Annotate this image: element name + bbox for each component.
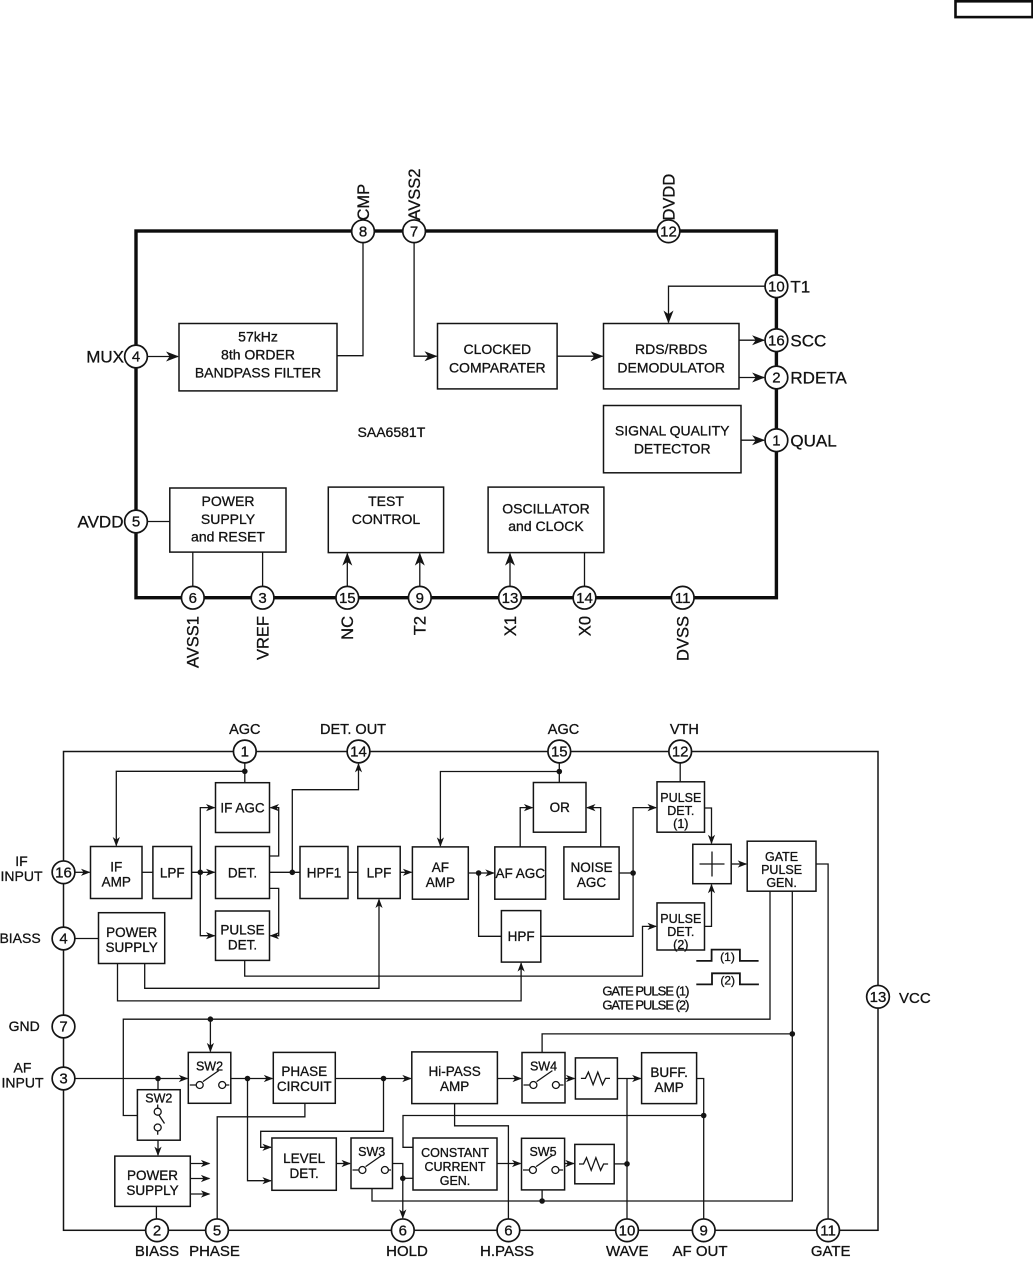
- svg-text:CONSTANT: CONSTANT: [421, 1146, 489, 1160]
- svg-text:RDS/RBDS: RDS/RBDS: [635, 341, 707, 357]
- block NOISE AGC: [564, 847, 619, 899]
- IC boundary SAA6581T: [136, 231, 776, 598]
- wire AGC branch to IF AMP top: [116, 771, 245, 845]
- pin 1 QUAL: [765, 429, 788, 452]
- pin 11 DVSS: [671, 586, 694, 609]
- svg-text:CMP: CMP: [355, 184, 373, 221]
- svg-text:16: 16: [55, 865, 72, 882]
- pin 12 VTH: [669, 740, 692, 763]
- junction AF input to shunt switch: [155, 1076, 161, 1082]
- wire CONSTANT CURRENT GEN. to SW5: [497, 1163, 521, 1165]
- svg-text:1: 1: [241, 744, 249, 761]
- svg-text:IF: IF: [15, 853, 27, 869]
- svg-text:GATE PULSE (2): GATE PULSE (2): [602, 998, 689, 1013]
- junction gate pulse (2) to SW5: [539, 1198, 545, 1204]
- svg-text:SUPPLY: SUPPLY: [126, 1183, 178, 1198]
- block RDS/RBDS demodulator: [604, 324, 740, 389]
- svg-text:and RESET: and RESET: [191, 529, 265, 545]
- svg-text:X0: X0: [576, 616, 594, 636]
- wire LPF to AF AMP: [400, 871, 411, 873]
- wire PULSE DET.(2) to adder: [705, 885, 712, 927]
- wire power supply to pin6 AVSS1: [192, 552, 194, 586]
- wire branch to HPF: [479, 873, 502, 936]
- resistor (wave shaping 2): [575, 1144, 614, 1183]
- block CONSTANT CURRENT GEN.: [413, 1138, 497, 1190]
- pin 4 BIASS: [52, 927, 75, 950]
- svg-text:AGC: AGC: [548, 722, 579, 738]
- svg-text:OR: OR: [550, 800, 571, 815]
- wire DET. lower feedback to PULSE DET. right: [270, 888, 279, 935]
- wire branch to SW5 bottom: [541, 1190, 543, 1201]
- svg-text:AMP: AMP: [426, 875, 455, 890]
- svg-text:CONTROL: CONTROL: [352, 511, 421, 527]
- svg-text:DEMODULATOR: DEMODULATOR: [617, 360, 725, 376]
- pin 15 AGC: [548, 740, 571, 763]
- svg-text:13: 13: [502, 590, 519, 607]
- svg-text:10: 10: [619, 1223, 636, 1240]
- svg-text:IF AGC: IF AGC: [220, 800, 265, 815]
- power supply output arrows: [190, 1164, 209, 1195]
- svg-text:2: 2: [772, 370, 780, 387]
- wire power supply to pin2 BIASS: [155, 1206, 157, 1219]
- svg-text:4: 4: [59, 931, 67, 948]
- wire pin5 AVDD to power supply: [147, 521, 169, 523]
- svg-text:BIASS: BIASS: [0, 930, 41, 946]
- wire branch to SW2 series top: [209, 1019, 211, 1051]
- junction DET. output: [290, 870, 296, 876]
- svg-text:AMP: AMP: [102, 875, 131, 890]
- waveform gate pulse (2): [696, 973, 759, 984]
- svg-text:12: 12: [672, 744, 689, 761]
- block PULSE DET. (2): [657, 903, 705, 950]
- svg-text:VTH: VTH: [670, 722, 699, 738]
- switch SW2 (series): [188, 1052, 231, 1103]
- block Hi-PASS AMP: [412, 1052, 498, 1104]
- wire RDS demodulator to pin2 RDETA: [739, 377, 764, 379]
- block LPF (AF): [358, 847, 400, 899]
- svg-text:11: 11: [675, 590, 691, 607]
- wire pin15 AGC to OR top: [558, 763, 560, 783]
- svg-text:OSCILLATOR: OSCILLATOR: [502, 500, 589, 516]
- svg-text:PULSE: PULSE: [660, 791, 701, 805]
- block IF AGC: [216, 783, 270, 833]
- svg-text:DET. OUT: DET. OUT: [320, 722, 386, 738]
- svg-text:GATE PULSE (1): GATE PULSE (1): [602, 984, 689, 999]
- svg-text:8: 8: [359, 224, 367, 241]
- wire DET. upper feedback to IF AGC right: [270, 808, 279, 856]
- svg-text:SUPPLY: SUPPLY: [201, 511, 256, 527]
- svg-text:WAVE: WAVE: [606, 1243, 649, 1260]
- block AF AMP: [412, 847, 468, 899]
- svg-text:HPF1: HPF1: [307, 865, 342, 880]
- svg-text:6: 6: [189, 590, 197, 607]
- switch SW3: [351, 1138, 393, 1189]
- junction HOLD bus: [400, 1176, 406, 1182]
- svg-text:SUPPLY: SUPPLY: [105, 940, 157, 955]
- svg-text:GATE: GATE: [811, 1243, 851, 1260]
- svg-text:T1: T1: [790, 277, 810, 296]
- wire Hi-PASS AMP bottom to pin6 H.PASS: [455, 1104, 509, 1219]
- pin 10 T1: [765, 275, 788, 298]
- svg-text:RDETA: RDETA: [790, 369, 847, 388]
- wire IF AMP to LPF: [142, 871, 153, 873]
- junction on AGC(15) line: [557, 769, 563, 775]
- svg-text:SAA6581T: SAA6581T: [358, 424, 426, 440]
- svg-text:T2: T2: [412, 616, 430, 635]
- block AF AGC: [495, 847, 546, 899]
- svg-text:AF: AF: [14, 1060, 32, 1076]
- wire MUX pin4 to bandpass filter: [147, 356, 178, 358]
- junction on AGC line: [242, 769, 248, 775]
- wire oscillator to pin14 X0: [584, 553, 586, 587]
- block LPF (IF): [153, 847, 192, 899]
- svg-text:DVDD: DVDD: [660, 174, 678, 221]
- pin 7 AVSS2: [403, 220, 426, 243]
- junction gate pulse (2) to SW4: [790, 1031, 796, 1037]
- wire resistor 1 to BUFF. AMP: [617, 1078, 640, 1080]
- svg-text:14: 14: [576, 590, 593, 607]
- wire branch to CONSTANT CURRENT GEN. lower input: [403, 1177, 413, 1179]
- pin 7 GND: [52, 1015, 75, 1038]
- switch SW4: [522, 1053, 565, 1103]
- wire branch to LEVEL DET. upper input: [261, 1079, 384, 1148]
- junction PHASE CIRCUIT output: [381, 1076, 387, 1082]
- wire DET. to HPF1: [270, 871, 301, 873]
- block signal quality detector: [604, 406, 742, 473]
- svg-text:AGC: AGC: [577, 875, 607, 890]
- pin 10 WAVE: [616, 1219, 639, 1242]
- svg-text:CLOCKED: CLOCKED: [463, 341, 531, 357]
- wire LPF to DET.: [192, 871, 215, 873]
- svg-text:PULSE: PULSE: [220, 923, 264, 938]
- svg-text:(2): (2): [720, 973, 735, 987]
- svg-text:SIGNAL QUALITY: SIGNAL QUALITY: [615, 423, 730, 439]
- wire SW2 shunt to power supply: [157, 1140, 159, 1155]
- pin 1 AGC: [233, 740, 256, 763]
- svg-text:AVDD: AVDD: [78, 513, 124, 532]
- wire pin4 to power supply: [75, 938, 99, 940]
- svg-text:POWER: POWER: [202, 493, 255, 509]
- wire gate pulse (2): GPG bottom to SW3/SW5 bus: [372, 891, 792, 1201]
- svg-text:AF OUT: AF OUT: [673, 1243, 728, 1260]
- wire LEVEL DET. to SW3: [336, 1163, 350, 1165]
- svg-text:INPUT: INPUT: [1, 868, 43, 884]
- svg-text:13: 13: [870, 989, 887, 1006]
- pin 3 AF INPUT: [52, 1067, 75, 1090]
- svg-text:DET.: DET.: [667, 804, 694, 818]
- wire SW4 to resistor 1: [565, 1078, 574, 1080]
- block test control: [328, 487, 443, 552]
- block DET.: [216, 847, 270, 899]
- wire HPF1 to LPF: [348, 871, 358, 873]
- svg-text:INPUT: INPUT: [2, 1075, 44, 1091]
- svg-text:DET.: DET.: [228, 865, 257, 880]
- svg-text:GEN.: GEN.: [440, 1174, 471, 1188]
- svg-text:POWER: POWER: [106, 925, 157, 940]
- block POWER SUPPLY (AF): [115, 1156, 191, 1206]
- svg-text:and CLOCK: and CLOCK: [508, 518, 584, 534]
- pin 8 CMP: [352, 220, 375, 243]
- wire pin1 AGC to IF AGC top: [244, 763, 246, 783]
- svg-text:X1: X1: [502, 616, 520, 636]
- wire branch to SW4 top: [542, 1034, 792, 1053]
- svg-text:BUFF.: BUFF.: [650, 1065, 688, 1080]
- svg-text:SW3: SW3: [358, 1145, 385, 1159]
- block oscillator and clock: [488, 487, 604, 552]
- svg-text:1: 1: [772, 432, 780, 449]
- svg-text:16: 16: [768, 332, 785, 349]
- pin 6 H.PASS: [497, 1219, 520, 1242]
- svg-text:NOISE: NOISE: [570, 860, 612, 875]
- svg-text:(1): (1): [720, 950, 735, 964]
- block PULSE DET. (1): [657, 782, 705, 832]
- wire SW5 to resistor 2: [565, 1163, 574, 1165]
- svg-text:AGC: AGC: [229, 722, 260, 738]
- pin 11 GATE: [817, 1219, 840, 1242]
- pin 15 NC: [336, 586, 359, 609]
- wire AF AGC to OR left: [520, 808, 532, 847]
- svg-text:12: 12: [660, 224, 677, 241]
- svg-text:POWER: POWER: [127, 1168, 178, 1183]
- svg-text:3: 3: [59, 1071, 67, 1088]
- wire branch to pin6 HOLD: [402, 1178, 404, 1218]
- pin 13 VCC: [867, 985, 890, 1008]
- junction noise bus: [630, 870, 636, 876]
- pin 13 X1: [499, 586, 522, 609]
- pin 3 VREF: [251, 586, 274, 609]
- wire power supply to LPF bottom: [145, 900, 379, 989]
- switch SW2 (shunt): [137, 1090, 180, 1141]
- svg-text:8th ORDER: 8th ORDER: [221, 347, 295, 363]
- wire pin3 AF INPUT to SW2: [75, 1078, 187, 1080]
- svg-text:10: 10: [768, 278, 785, 295]
- svg-text:PHASE: PHASE: [281, 1064, 327, 1079]
- svg-text:DET.: DET.: [228, 938, 257, 953]
- svg-text:TEST: TEST: [368, 493, 404, 509]
- svg-text:LPF: LPF: [367, 865, 392, 880]
- wire branch to IF AGC left: [200, 808, 214, 873]
- wire pin10 T1 to RDS demodulator top: [669, 286, 766, 322]
- block PULSE DET.: [216, 911, 270, 960]
- svg-text:SW4: SW4: [530, 1059, 557, 1073]
- wire SW2 to PHASE CIRCUIT: [231, 1078, 272, 1080]
- svg-text:AF AGC: AF AGC: [495, 866, 545, 881]
- block PHASE CIRCUIT: [273, 1052, 335, 1103]
- svg-text:CIRCUIT: CIRCUIT: [277, 1079, 332, 1094]
- svg-text:DVSS: DVSS: [675, 616, 693, 661]
- block OR: [533, 783, 586, 833]
- wire DET. output to pin14 DET.OUT: [292, 764, 358, 872]
- svg-text:3: 3: [258, 590, 266, 607]
- svg-text:DET.: DET.: [667, 925, 694, 939]
- block 57kHz 8th order bandpass filter: [179, 324, 337, 391]
- IC boundary (IF/AF processor): [64, 752, 879, 1231]
- wire Hi-PASS AMP to SW4: [497, 1078, 521, 1080]
- pin 5 PHASE: [206, 1219, 229, 1242]
- svg-text:SW5: SW5: [529, 1145, 556, 1159]
- junction gate pulse (1) to SW2 top: [208, 1016, 214, 1022]
- wire branch to SW2 shunt top: [157, 1079, 159, 1090]
- wire AF AMP to AF AGC: [468, 872, 494, 874]
- wire pin7 AVSS2 to clocked comparater: [414, 243, 436, 357]
- adder (summing junction): [693, 844, 731, 883]
- wire NOISE AGC output to noise bus: [619, 872, 633, 874]
- svg-text:VREF: VREF: [255, 616, 273, 660]
- wire pin12 VTH to PULSE DET.(1) top: [679, 763, 681, 782]
- svg-text:PULSE: PULSE: [761, 863, 802, 877]
- wire power supply to pin3 VREF: [262, 552, 264, 586]
- wire HPF output via noise bus to PULSE DET.(1): [541, 808, 656, 937]
- svg-text:2: 2: [153, 1223, 161, 1240]
- wire pin16 to IF AMP: [75, 871, 90, 873]
- svg-text:GATE: GATE: [765, 850, 798, 864]
- svg-text:Hi-PASS: Hi-PASS: [428, 1064, 480, 1079]
- svg-text:H.PASS: H.PASS: [480, 1243, 534, 1260]
- svg-text:9: 9: [700, 1223, 708, 1240]
- wire RDS demodulator to pin16 SCC: [739, 339, 764, 341]
- svg-text:AMP: AMP: [654, 1080, 683, 1095]
- svg-text:(1): (1): [673, 817, 688, 831]
- svg-text:AF: AF: [432, 860, 449, 875]
- wire pin9 T2 to test control: [419, 554, 421, 587]
- svg-text:MUX: MUX: [86, 348, 124, 367]
- wire PHASE CIRCUIT to Hi-PASS AMP: [335, 1078, 411, 1080]
- block HPF: [501, 911, 540, 963]
- pin 9 T2: [408, 586, 431, 609]
- svg-text:CURRENT: CURRENT: [424, 1160, 485, 1174]
- waveform gate pulse (1): [696, 950, 758, 961]
- wire BUFF. AMP output to pin9 AF OUT: [697, 1079, 704, 1219]
- svg-text:DETECTOR: DETECTOR: [634, 441, 711, 457]
- wire SW3 output to HOLD bus: [393, 1164, 403, 1179]
- block clocked comparater: [438, 324, 558, 389]
- svg-text:11: 11: [820, 1223, 836, 1240]
- svg-text:4: 4: [132, 349, 140, 366]
- svg-text:NC: NC: [339, 616, 357, 640]
- svg-text:AVSS1: AVSS1: [185, 616, 203, 668]
- pin 14 DET. OUT: [347, 740, 370, 763]
- page corner box: [956, 1, 1033, 17]
- pin 9 AF OUT: [692, 1219, 715, 1242]
- svg-text:AMP: AMP: [440, 1079, 469, 1094]
- svg-text:HPF: HPF: [508, 929, 535, 944]
- wire pin15 NC to test control: [346, 554, 348, 587]
- pin 4 MUX: [125, 345, 148, 368]
- junction AF OUT feedback: [701, 1113, 707, 1119]
- block power supply and reset: [170, 488, 286, 552]
- block LEVEL DET.: [272, 1138, 336, 1190]
- svg-text:15: 15: [339, 590, 356, 607]
- switch SW5: [522, 1138, 565, 1190]
- svg-text:6: 6: [399, 1223, 407, 1240]
- svg-text:PULSE: PULSE: [660, 912, 701, 926]
- pin 2 RDETA: [765, 366, 788, 389]
- wire WAVE bus: [626, 1079, 628, 1219]
- wire PHASE CIRCUIT bottom to pin5 PHASE: [217, 1103, 305, 1219]
- svg-text:7: 7: [59, 1019, 67, 1036]
- svg-text:GND: GND: [9, 1018, 40, 1034]
- wire power supply to HPF bottom: [118, 963, 522, 1001]
- block BUFF. AMP: [642, 1053, 697, 1104]
- wire PULSE DET.(1) to adder: [705, 808, 712, 843]
- pin 16 IF INPUT: [52, 861, 75, 884]
- pin 5 AVDD: [125, 510, 148, 533]
- block GATE PULSE GEN.: [747, 841, 816, 891]
- wire pin13 X1 to oscillator: [509, 554, 511, 587]
- wire GATE PULSE GEN. to pin11 GATE: [816, 864, 828, 1219]
- svg-text:SW2: SW2: [145, 1091, 172, 1105]
- wire resistor 2 to WAVE bus: [614, 1163, 627, 1165]
- svg-text:(2): (2): [673, 938, 688, 952]
- svg-text:5: 5: [213, 1223, 221, 1240]
- svg-text:6: 6: [504, 1223, 512, 1240]
- block IF AMP: [91, 847, 143, 899]
- svg-text:9: 9: [416, 590, 424, 607]
- wire NOISE AGC to OR right: [587, 808, 601, 847]
- pin 12 DVDD: [657, 220, 680, 243]
- wire AGC branch to AF AMP top: [440, 772, 559, 846]
- pin 2 BIASS: [146, 1219, 169, 1242]
- svg-text:QUAL: QUAL: [790, 431, 836, 450]
- svg-text:IF: IF: [110, 860, 122, 875]
- junction WAVE bus: [624, 1161, 630, 1167]
- svg-text:LPF: LPF: [160, 865, 185, 880]
- svg-text:BIASS: BIASS: [135, 1243, 179, 1260]
- resistor (wave shaping 1): [575, 1058, 617, 1099]
- junction LPF output: [198, 870, 204, 876]
- pin 6 HOLD: [391, 1219, 414, 1242]
- svg-text:5: 5: [132, 514, 140, 531]
- wire gate pulse (1): GPG bottom to SW2 shunt: [123, 891, 770, 1115]
- block HPF1: [300, 847, 348, 899]
- svg-text:BANDPASS FILTER: BANDPASS FILTER: [195, 365, 321, 381]
- wire branch to LEVEL DET. lower input: [248, 1079, 271, 1181]
- svg-text:HOLD: HOLD: [386, 1243, 428, 1260]
- svg-text:15: 15: [551, 744, 568, 761]
- junction SW2 output: [245, 1076, 251, 1082]
- pin 6 AVSS1: [181, 586, 204, 609]
- svg-text:SCC: SCC: [790, 331, 826, 350]
- svg-text:VCC: VCC: [899, 990, 931, 1007]
- svg-text:LEVEL: LEVEL: [283, 1151, 326, 1166]
- wire branch to PULSE DET. left: [200, 872, 214, 935]
- svg-text:SW2: SW2: [196, 1059, 223, 1073]
- wire bandpass filter to pin8 CMP: [337, 243, 363, 356]
- svg-text:57kHz: 57kHz: [238, 329, 278, 345]
- wire PULSE DET. bottom to PULSE DET.(2): [245, 926, 656, 976]
- wire feedback to CONSTANT CURRENT GEN. upper input: [403, 1116, 704, 1148]
- svg-text:GEN.: GEN.: [766, 876, 797, 890]
- svg-text:7: 7: [410, 224, 418, 241]
- svg-text:DET.: DET.: [289, 1166, 318, 1181]
- svg-text:COMPARATER: COMPARATER: [449, 360, 546, 376]
- wire clocked comparater to RDS demodulator: [557, 355, 602, 357]
- wire adder to GATE PULSE GEN.: [731, 863, 746, 865]
- svg-text:14: 14: [350, 744, 367, 761]
- svg-text:PHASE: PHASE: [189, 1243, 240, 1260]
- pin 16 SCC: [765, 329, 788, 352]
- block POWER SUPPLY (IF): [99, 913, 165, 964]
- pin 14 X0: [573, 586, 596, 609]
- svg-text:AVSS2: AVSS2: [406, 169, 424, 221]
- junction AF AMP output: [476, 870, 482, 876]
- wire signal quality detector to pin1 QUAL: [741, 439, 764, 441]
